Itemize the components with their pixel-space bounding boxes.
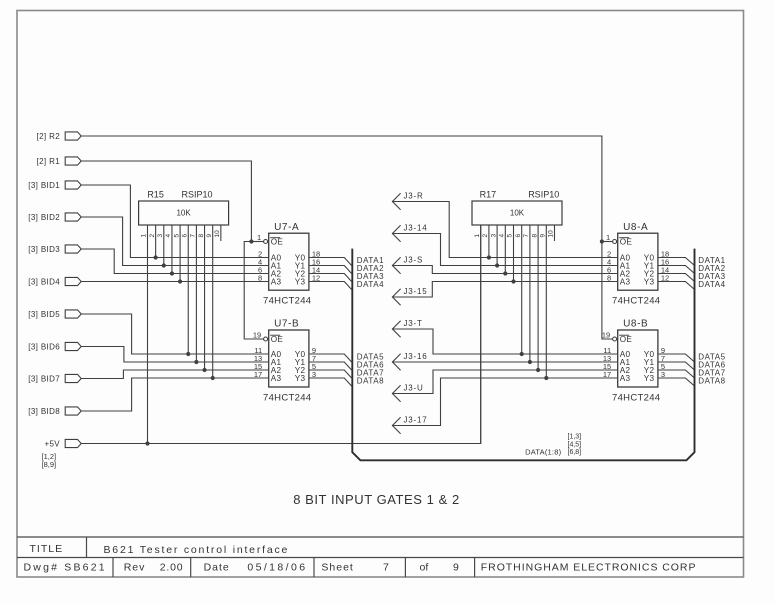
svg-text:12: 12	[312, 273, 320, 282]
R15 pin 1	[141, 225, 148, 444]
svg-text:[4,5]: [4,5]	[568, 441, 582, 448]
wire R2 to U8 OE	[81, 136, 602, 242]
svg-text:5: 5	[507, 234, 514, 238]
svg-text:+5V: +5V	[44, 439, 60, 448]
svg-text:R17: R17	[480, 190, 497, 200]
svg-text:2: 2	[149, 234, 156, 238]
bus name DATA(1:8)	[525, 434, 581, 457]
svg-text:OE: OE	[271, 335, 284, 344]
svg-text:4: 4	[499, 234, 506, 238]
svg-text:[2] R1: [2] R1	[37, 157, 61, 166]
svg-text:74HCT244: 74HCT244	[263, 296, 311, 307]
svg-text:Sheet: Sheet	[321, 562, 353, 574]
svg-text:[3] BID8: [3] BID8	[28, 407, 60, 416]
svg-text:74HCT244: 74HCT244	[263, 392, 311, 403]
wire J3-U to U8-B A2	[392, 370, 617, 394]
svg-text:Dwg# SB621: Dwg# SB621	[24, 562, 107, 574]
wire R1 to U7 OE	[81, 161, 251, 242]
wire U7 OE stub	[251, 241, 263, 243]
svg-text:DATA4: DATA4	[698, 280, 725, 289]
svg-text:RSIP10: RSIP10	[182, 190, 213, 200]
svg-text:3: 3	[312, 370, 316, 379]
svg-text:8: 8	[531, 234, 538, 238]
svg-text:A3: A3	[271, 374, 282, 383]
bus net labels right	[698, 256, 725, 386]
svg-text:DATA8: DATA8	[698, 377, 725, 386]
input flag BID7	[28, 374, 81, 383]
svg-text:J3-S: J3-S	[404, 255, 424, 264]
svg-text:10: 10	[548, 230, 555, 238]
junction dots	[145, 239, 604, 445]
connector arrow J3-16	[392, 352, 427, 371]
svg-text:8: 8	[607, 273, 611, 282]
svg-text:OE: OE	[271, 238, 284, 247]
wire +5V rail	[81, 225, 481, 444]
wire U7-B Y3 to bus	[309, 378, 352, 386]
wire J3-16 to U8-B A1	[392, 361, 617, 363]
svg-text:9: 9	[540, 234, 547, 238]
data bus	[352, 249, 694, 461]
svg-text:3: 3	[490, 234, 497, 238]
svg-text:6: 6	[181, 234, 188, 238]
svg-text:74HCT244: 74HCT244	[612, 296, 660, 307]
svg-text:8: 8	[258, 273, 262, 282]
svg-text:J3-16: J3-16	[404, 352, 428, 361]
R15 pin 2	[149, 225, 156, 258]
svg-text:Y3: Y3	[295, 277, 306, 286]
svg-text:U8-B: U8-B	[623, 319, 648, 330]
R17 pin 8	[531, 225, 538, 370]
svg-text:DATA8: DATA8	[357, 377, 384, 386]
svg-text:2: 2	[482, 234, 489, 238]
connector arrow J3-14	[392, 223, 427, 242]
wire U8-A Y3 to bus	[658, 282, 695, 290]
svg-text:[6,8]: [6,8]	[568, 449, 582, 456]
connector arrow J3-15	[392, 287, 427, 306]
connector arrow J3-U	[392, 383, 423, 402]
svg-text:1: 1	[606, 233, 610, 242]
input flag +5V	[44, 439, 81, 448]
wire J3-R to U8-A A0	[392, 202, 617, 258]
svg-text:1: 1	[257, 233, 261, 242]
R15 pin 10	[214, 225, 221, 241]
svg-text:1: 1	[141, 234, 148, 238]
svg-text:19: 19	[602, 331, 610, 340]
wire J3-S to U8-A A2	[392, 266, 617, 274]
svg-text:RSIP10: RSIP10	[528, 190, 559, 200]
wire BID1 to U7-A A0	[81, 185, 269, 258]
svg-text:6: 6	[515, 234, 522, 238]
bus net labels left	[357, 256, 384, 386]
svg-text:A3: A3	[620, 374, 631, 383]
svg-text:[3] BID2: [3] BID2	[28, 213, 60, 222]
wire U8 OE branch to U8-B	[602, 242, 613, 340]
svg-text:12: 12	[661, 273, 669, 282]
R17 pin 1	[474, 225, 481, 444]
buffer U7-B	[253, 319, 316, 404]
wire U7-A Y0 to bus	[309, 258, 352, 266]
svg-text:10K: 10K	[510, 209, 525, 218]
title block row1	[30, 543, 290, 556]
R15 pin 4	[165, 225, 172, 274]
wire U8-B Y1 to bus	[658, 362, 695, 370]
svg-text:8: 8	[198, 234, 205, 238]
wire BID8 to U7-B A3	[81, 378, 269, 411]
resistor pack R17	[472, 190, 562, 226]
connector arrow J3-S	[392, 255, 423, 274]
svg-text:4: 4	[165, 234, 172, 238]
svg-text:05/18/06: 05/18/06	[247, 562, 307, 574]
wire U8-A Y0 to bus	[658, 258, 695, 266]
svg-text:J3-17: J3-17	[404, 415, 428, 424]
R15 pin 6	[181, 225, 188, 354]
svg-text:[3] BID6: [3] BID6	[28, 342, 60, 351]
svg-text:DATA(1:8): DATA(1:8)	[525, 448, 561, 457]
R15 pin 8	[198, 225, 205, 370]
svg-text:TITLE: TITLE	[30, 543, 64, 555]
wire U8-B Y0 to bus	[658, 354, 695, 362]
wire J3-T to U8-B A0	[392, 329, 617, 354]
svg-text:A3: A3	[271, 277, 282, 286]
wire U7-A Y1 to bus	[309, 266, 352, 274]
svg-text:8 BIT INPUT GATES 1 & 2: 8 BIT INPUT GATES 1 & 2	[293, 492, 460, 507]
svg-text:J3-15: J3-15	[404, 287, 428, 296]
input flag BID8	[28, 407, 81, 416]
buffer U8-A	[606, 222, 669, 307]
svg-text:A3: A3	[620, 277, 631, 286]
svg-text:R15: R15	[147, 190, 164, 200]
svg-text:3: 3	[661, 370, 665, 379]
wire U8-A Y2 to bus	[658, 274, 695, 282]
svg-text:DATA4: DATA4	[357, 280, 384, 289]
svg-text:[3] BID5: [3] BID5	[28, 310, 60, 319]
buffer U8-B	[602, 319, 665, 404]
svg-text:Date: Date	[204, 562, 230, 574]
input flag BID5	[28, 310, 81, 319]
wire U8-A Y1 to bus	[658, 266, 695, 274]
wire U7-B Y1 to bus	[309, 362, 352, 370]
svg-text:7: 7	[523, 234, 530, 238]
buffer U7-A	[257, 222, 320, 307]
svg-text:OE: OE	[620, 335, 633, 344]
svg-text:Y3: Y3	[644, 277, 655, 286]
svg-text:9: 9	[453, 562, 459, 574]
R17 pin 10	[548, 225, 555, 241]
svg-text:[3] BID4: [3] BID4	[28, 277, 60, 286]
wire BID5 to U7-B A0	[81, 314, 269, 354]
wire BID6 to U7-B A1	[81, 347, 269, 363]
svg-text:B621 Tester control interface: B621 Tester control interface	[104, 544, 290, 556]
svg-text:U7-B: U7-B	[274, 319, 299, 330]
svg-text:10K: 10K	[176, 209, 191, 218]
input flag R1	[37, 157, 82, 166]
wire J3-15 to U8-A A3	[392, 282, 617, 298]
input flag BID4	[28, 277, 81, 286]
svg-text:J3-R: J3-R	[404, 191, 424, 200]
svg-text:J3-U: J3-U	[404, 383, 424, 392]
svg-text:Y3: Y3	[295, 374, 306, 383]
svg-text:[3] BID7: [3] BID7	[28, 374, 60, 383]
svg-text:17: 17	[603, 370, 611, 379]
svg-text:1: 1	[474, 234, 481, 238]
wire BID2 to U7-A A1	[81, 217, 269, 266]
svg-text:10: 10	[214, 230, 221, 238]
wire U8 OE stub	[602, 241, 613, 243]
R17 pin 2	[482, 225, 489, 258]
R17 pin 3	[490, 225, 497, 266]
wire U7 OE branch to U7-B	[244, 242, 263, 340]
wire J3-17 to U8-B A3	[392, 378, 617, 426]
wire BID3 to U7-A A2	[81, 249, 269, 274]
svg-text:9: 9	[206, 234, 213, 238]
wire BID4 to U7-A A3	[81, 281, 269, 283]
title block grid	[17, 537, 744, 577]
svg-text:2.00: 2.00	[160, 562, 184, 574]
R17 pin 9	[540, 225, 547, 378]
wire U8-B Y3 to bus	[658, 378, 695, 386]
input flag BID1	[28, 181, 81, 190]
R15 pin 7	[190, 225, 197, 362]
wire U7-A Y3 to bus	[309, 282, 352, 290]
wire U7-B Y0 to bus	[309, 354, 352, 362]
connector arrow J3-R	[392, 191, 423, 210]
wire U8-B Y2 to bus	[658, 370, 695, 378]
svg-text:FROTHINGHAM ELECTRONICS CORP: FROTHINGHAM ELECTRONICS CORP	[481, 562, 697, 574]
resistor pack R15	[139, 190, 229, 226]
R15 pin 9	[206, 225, 213, 378]
input flag BID6	[28, 342, 81, 351]
sheet caption	[293, 492, 460, 507]
svg-text:7: 7	[383, 562, 389, 574]
svg-text:74HCT244: 74HCT244	[612, 392, 660, 403]
R17 pin 6	[515, 225, 522, 354]
svg-text:J3-T: J3-T	[404, 319, 423, 328]
connector arrow J3-T	[392, 319, 422, 338]
svg-text:OE: OE	[620, 238, 633, 247]
wire U7-A Y2 to bus	[309, 274, 352, 282]
wire U7-B Y2 to bus	[309, 370, 352, 378]
R17 pin 5	[507, 225, 514, 282]
svg-text:[8,9]: [8,9]	[42, 460, 57, 469]
svg-text:[2] R2: [2] R2	[37, 132, 61, 141]
svg-text:3: 3	[157, 234, 164, 238]
svg-text:J3-14: J3-14	[404, 223, 428, 232]
R15 pin 3	[157, 225, 164, 266]
svg-text:[3] BID3: [3] BID3	[28, 245, 60, 254]
wire BID7 to U7-B A2	[81, 370, 269, 379]
svg-text:[1,3]: [1,3]	[568, 434, 582, 441]
svg-text:Y3: Y3	[644, 374, 655, 383]
input flag BID2	[28, 213, 81, 222]
wire J3-14 to U8-A A1	[392, 234, 617, 266]
svg-text:7: 7	[190, 234, 197, 238]
svg-text:U8-A: U8-A	[623, 222, 648, 233]
input flag R2	[37, 132, 82, 141]
R17 pin 4	[499, 225, 506, 274]
svg-text:of: of	[420, 562, 429, 574]
R15 pin 5	[173, 225, 180, 282]
R17 pin 7	[523, 225, 530, 362]
title block row2	[24, 562, 697, 574]
input flag BID3	[28, 245, 81, 254]
connector arrow J3-17	[392, 415, 427, 434]
svg-text:U7-A: U7-A	[274, 222, 299, 233]
+5V sheet refs	[42, 452, 57, 469]
svg-text:[3] BID1: [3] BID1	[28, 181, 60, 190]
svg-text:19: 19	[253, 331, 261, 340]
svg-text:5: 5	[173, 234, 180, 238]
svg-text:Rev: Rev	[124, 562, 146, 574]
svg-text:17: 17	[254, 370, 262, 379]
